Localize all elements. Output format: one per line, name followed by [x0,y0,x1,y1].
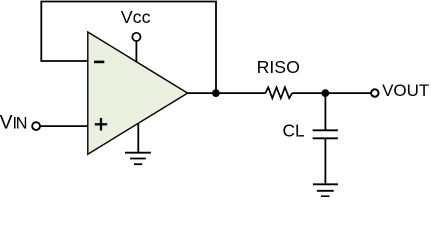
svg-text:RISO: RISO [257,57,300,77]
ground op-amp [125,123,151,164]
svg-text:VIN: VIN [0,113,27,134]
op-amp inverting input marker (-) [94,61,104,64]
terminal Vcc [132,33,140,41]
label Vcc [121,7,151,27]
label VIN [0,113,27,134]
wire capacitor bottom plate to ground [324,138,326,184]
resistor RISO [265,87,292,98]
terminal VOUT [371,89,378,96]
label CL [283,120,305,140]
wire VIN terminal to non-inverting input [40,125,88,127]
label VOUT [382,81,429,100]
op-amp non-inverting input marker (+) [95,118,107,131]
capacitor CL [313,130,338,138]
op-amp U1 [88,32,188,154]
wire op-amp output to resistor [188,92,266,94]
wire load node to capacitor top plate [324,93,326,130]
svg-text:CL: CL [283,120,305,140]
ground load [313,184,338,196]
svg-text:Vcc: Vcc [121,7,151,27]
node output junction [212,89,220,97]
svg-text:VOUT: VOUT [382,81,429,100]
node load junction [321,89,329,97]
label RISO [257,57,300,77]
wire feedback loop (output node to inverting input) [41,2,216,94]
terminal VIN [32,122,40,130]
wire Vcc terminal to op-amp top edge [135,41,137,63]
wire resistor to load node and VOUT terminal [292,92,371,94]
